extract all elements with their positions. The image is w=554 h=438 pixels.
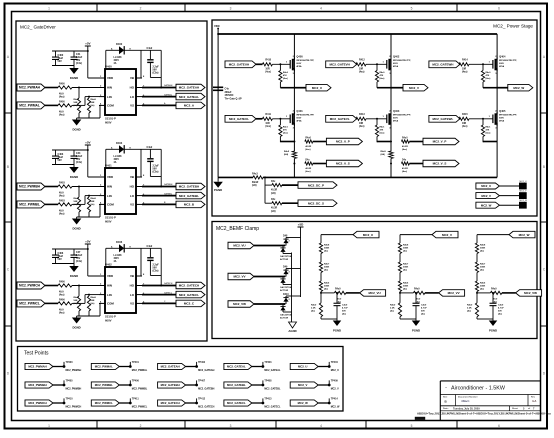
svg-text:TP407: TP407 — [198, 380, 206, 383]
svg-text:Q403: Q403 — [393, 109, 400, 113]
svg-text:MC2_GATEAL: MC2_GATEAL — [179, 95, 199, 99]
svg-text:1: 1 — [48, 6, 50, 10]
svg-text:TP405: TP405 — [66, 380, 74, 383]
svg-text:MC2_GATECL: MC2_GATECL — [264, 406, 281, 409]
svg-text:R4x6: R4x6 — [403, 282, 409, 285]
svg-text:50V: 50V — [421, 311, 425, 313]
svg-text:(C4x): (C4x) — [76, 161, 82, 164]
svg-text:MC2_VU: MC2_VU — [233, 244, 245, 248]
svg-text:400V: 400V — [114, 257, 120, 260]
svg-text:R400: R400 — [59, 101, 65, 104]
svg-text:50V: 50V — [58, 258, 63, 261]
svg-text:(4xx): (4xx) — [380, 131, 385, 134]
svg-text:MC2_V: MC2_V — [442, 233, 452, 237]
svg-text:MC2_GATEBL: MC2_GATEBL — [179, 194, 199, 198]
svg-text:MC2_GATEAH: MC2_GATEAH — [198, 369, 215, 372]
svg-text:R4x0: R4x0 — [486, 71, 492, 74]
svg-text:R4x0: R4x0 — [390, 304, 396, 307]
svg-text:MC2_GATEBH: MC2_GATEBH — [179, 185, 199, 189]
svg-text:R4x8: R4x8 — [91, 197, 97, 200]
svg-text:Date:: Date: — [443, 407, 449, 410]
svg-text:R4x1: R4x1 — [283, 125, 289, 128]
svg-text:4F5A: 4F5A — [393, 119, 399, 122]
svg-text:49.9: 49.9 — [59, 210, 64, 213]
svg-text:49.9: 49.9 — [59, 291, 64, 294]
svg-text:50V: 50V — [498, 311, 502, 313]
svg-text:DGND: DGND — [72, 128, 80, 132]
svg-text:R4x9: R4x9 — [74, 197, 80, 200]
svg-text:40.2R: 40.2R — [305, 145, 311, 148]
svg-text:MC2_GATECL: MC2_GATECL — [227, 401, 246, 405]
svg-text:R4x9: R4x9 — [491, 288, 497, 291]
svg-text:IRFS3006TRL7PP,: IRFS3006TRL7PP, — [393, 115, 411, 117]
svg-text:(4x): (4x) — [324, 250, 328, 253]
svg-text:D410: D410 — [283, 293, 289, 296]
svg-text:300K: 300K — [403, 248, 409, 250]
svg-text:B: B — [7, 165, 9, 169]
svg-text:HO: HO — [130, 185, 135, 189]
svg-text:MC2_PWMAH: MC2_PWMAH — [19, 86, 41, 90]
svg-text:47K: 47K — [486, 128, 490, 131]
svg-text:ABG0U=Tou:JULY.28.UKPM.LNSheet: ABG0U=Tou:JULY.28.UKPM.LNSheet·5·of·7=AB… — [417, 411, 551, 415]
svg-text:(4x): (4x) — [311, 310, 315, 313]
svg-text:OACZ3TUM: OACZ3TUM — [280, 314, 292, 317]
svg-text:MC2_GATEAH: MC2_GATEAH — [161, 365, 180, 369]
svg-text:MC2_C: MC2_C — [184, 302, 195, 306]
svg-text:(4xx): (4xx) — [486, 131, 491, 134]
svg-text:MC2_U: MC2_U — [481, 184, 491, 188]
svg-text:R4x8: R4x8 — [91, 98, 97, 101]
svg-text:(4xx): (4xx) — [462, 125, 468, 128]
svg-text:VB: VB — [130, 76, 134, 80]
svg-text:R412: R412 — [359, 59, 365, 62]
svg-text:C4x2: C4x2 — [147, 245, 153, 248]
svg-text:R4x5: R4x5 — [381, 150, 387, 153]
svg-text:Q402: Q402 — [393, 55, 400, 59]
svg-text:DGND: DGND — [70, 76, 78, 80]
svg-text:10R: 10R — [462, 123, 467, 125]
svg-text:R4x8: R4x8 — [480, 244, 486, 247]
svg-text:56K: 56K — [74, 102, 78, 104]
svg-text:C4x9: C4x9 — [342, 304, 348, 307]
svg-text:PGND: PGND — [489, 329, 497, 333]
svg-text:R406: R406 — [59, 299, 65, 302]
svg-text:(4xx): (4xx) — [59, 96, 65, 99]
svg-text:VS: VS — [130, 302, 134, 306]
svg-text:40.2R: 40.2R — [402, 167, 408, 170]
svg-text:MC2_W: MC2_W — [519, 233, 530, 237]
svg-text:MC2_GATECL: MC2_GATECL — [179, 293, 199, 297]
svg-text:MC2_GATEWL: MC2_GATEWL — [433, 117, 454, 121]
svg-text:MC2_PWMAL: MC2_PWMAL — [95, 365, 113, 369]
svg-text:4F5A: 4F5A — [393, 65, 399, 68]
svg-text:47K: 47K — [486, 74, 490, 77]
svg-text:40.2R: 40.2R — [271, 207, 277, 210]
svg-text:VS: VS — [130, 104, 134, 108]
svg-text:(C4x): (C4x) — [76, 260, 82, 263]
svg-text:MC2_GATEBH: MC2_GATEBH — [198, 388, 215, 391]
svg-text:(4xx): (4xx) — [486, 77, 491, 80]
svg-text:VDD: VDD — [107, 274, 113, 278]
svg-text:U400: U400 — [105, 65, 112, 69]
svg-text:R4x9: R4x9 — [414, 288, 420, 291]
svg-text:DGND: DGND — [70, 274, 78, 278]
svg-text:Q404: Q404 — [499, 55, 506, 59]
svg-text:MC2_PWMBH: MC2_PWMBH — [28, 383, 46, 387]
svg-text:(4xx): (4xx) — [265, 71, 271, 74]
svg-text:TP406: TP406 — [132, 380, 140, 383]
svg-text:DGND: DGND — [72, 326, 80, 330]
svg-text:MC2_BEMF Clamp: MC2_BEMF Clamp — [216, 226, 259, 232]
svg-text:(4x): (4x) — [421, 313, 425, 316]
svg-text:ACT10R: ACT10R — [280, 289, 289, 292]
svg-text:49.9: 49.9 — [59, 309, 64, 312]
svg-text:MC2_PWMAL: MC2_PWMAL — [132, 369, 148, 372]
svg-text:R4x0: R4x0 — [311, 304, 317, 307]
svg-text:(C0x): (C0x) — [153, 270, 159, 273]
svg-text:(C0x): (C0x) — [153, 72, 159, 75]
svg-text:R4x1: R4x1 — [380, 125, 386, 128]
svg-text:IRFS3006TRL7PP,: IRFS3006TRL7PP, — [499, 60, 517, 62]
svg-text:R400: R400 — [59, 83, 65, 86]
svg-text:MC2_PWMCH: MC2_PWMCH — [66, 406, 82, 409]
svg-text:GATECH: GATECH — [164, 282, 173, 285]
svg-text:OACZ3TUM: OACZ3TUM — [280, 255, 292, 258]
svg-text:(4xx): (4xx) — [359, 125, 365, 128]
svg-text:40.2R: 40.2R — [402, 145, 408, 148]
svg-text:R4x0: R4x0 — [283, 71, 289, 74]
svg-text:600V: 600V — [296, 63, 301, 65]
svg-text:5: 5 — [411, 424, 413, 428]
svg-text:D406: D406 — [116, 240, 123, 244]
svg-text:600V: 600V — [393, 117, 398, 119]
svg-text:(H4): (H4) — [284, 153, 289, 156]
svg-text:MC2_V_S: MC2_V_S — [433, 162, 447, 166]
svg-text:600V: 600V — [105, 220, 112, 224]
svg-text:300K: 300K — [403, 267, 409, 269]
svg-text:(4xx): (4xx) — [59, 312, 65, 315]
svg-text:300K: 300K — [324, 267, 330, 269]
svg-text:4A: 4A — [114, 161, 117, 164]
svg-text:4: 4 — [320, 424, 322, 428]
svg-text:Test Points: Test Points — [24, 351, 49, 357]
svg-text:(4x): (4x) — [91, 203, 95, 206]
svg-text:MC2_VV: MC2_VV — [233, 275, 245, 279]
svg-text:6: 6 — [498, 424, 500, 428]
svg-text:+5V: +5V — [85, 240, 90, 244]
svg-text:R4x1: R4x1 — [486, 125, 492, 128]
svg-text:MC2_VU: MC2_VU — [369, 291, 381, 295]
svg-text:MC2_U: MC2_U — [312, 86, 322, 90]
svg-text:HIN: HIN — [107, 284, 112, 288]
svg-text:TP410: TP410 — [66, 398, 74, 401]
svg-text:+5V: +5V — [85, 42, 90, 46]
svg-text:(4x): (4x) — [74, 203, 78, 206]
svg-text:R4x: R4x — [271, 198, 276, 201]
svg-text:MC2_B: MC2_B — [184, 203, 195, 207]
svg-text:DGND: DGND — [70, 175, 78, 179]
svg-text:LL4148: LL4148 — [114, 155, 123, 158]
svg-text:47K: 47K — [380, 74, 384, 77]
svg-text:4F5A: 4F5A — [499, 119, 505, 122]
svg-text:MC2_GATEBH: MC2_GATEBH — [161, 383, 180, 387]
svg-text:MC2_GATEUL: MC2_GATEUL — [229, 117, 249, 121]
svg-text:MC2_U: MC2_U — [363, 233, 373, 237]
svg-text:4.7nF: 4.7nF — [498, 307, 504, 310]
svg-text:GATEBH: GATEBH — [164, 183, 173, 186]
svg-text:MC2_W: MC2_W — [298, 401, 308, 405]
svg-text:600V: 600V — [499, 117, 504, 119]
svg-text:U402: U402 — [105, 263, 112, 267]
svg-text:3: 3 — [230, 424, 232, 428]
svg-text:PGND: PGND — [333, 329, 341, 333]
svg-text:MC2_W: MC2_W — [520, 200, 528, 202]
svg-text:10R: 10R — [265, 123, 270, 125]
svg-text:(H4): (H4) — [271, 210, 276, 213]
svg-text:MC2_PWMBH: MC2_PWMBH — [19, 185, 41, 189]
svg-text:400V: 400V — [114, 59, 120, 62]
svg-text:R406: R406 — [59, 281, 65, 284]
svg-text:Q401: Q401 — [296, 109, 303, 113]
svg-text:MC2_DC_P: MC2_DC_P — [308, 183, 324, 187]
svg-text:(4x): (4x) — [480, 288, 484, 291]
svg-text:300K: 300K — [480, 286, 486, 288]
svg-text:(4xx): (4xx) — [265, 125, 271, 128]
svg-text:IRFS3006TRL7PP,: IRFS3006TRL7PP, — [296, 60, 314, 62]
svg-text:600V: 600V — [499, 63, 504, 65]
svg-text:VDD: VDD — [107, 175, 113, 179]
svg-text:MC2_PWMAL: MC2_PWMAL — [19, 104, 40, 108]
svg-text:MC2_GATEVH: MC2_GATEVH — [330, 63, 350, 67]
svg-text:R413: R413 — [359, 113, 365, 116]
svg-text:MC2_W: MC2_W — [481, 203, 492, 207]
svg-text:D4x: D4x — [402, 159, 407, 162]
svg-text:R4x5: R4x5 — [284, 150, 290, 153]
svg-text:4: 4 — [320, 6, 322, 10]
svg-text:MC2_VW: MC2_VW — [524, 291, 537, 295]
svg-text:(4xx): (4xx) — [402, 170, 407, 173]
svg-text:600V: 600V — [296, 117, 301, 119]
svg-text:R4x7: R4x7 — [403, 263, 409, 266]
svg-text:(4x): (4x) — [403, 288, 407, 291]
svg-text:MC2_VW: MC2_VW — [233, 302, 246, 306]
svg-text:TP412: TP412 — [198, 398, 206, 401]
svg-text:47K: 47K — [380, 128, 384, 131]
svg-text:5: 5 — [411, 6, 413, 10]
svg-text:MC2_GATEAL: MC2_GATEAL — [227, 365, 246, 369]
svg-text:(4xx): (4xx) — [59, 213, 65, 216]
svg-text:R4x7: R4x7 — [324, 263, 330, 266]
svg-text:MC2_V: MC2_V — [409, 86, 419, 90]
svg-text:MC2_U: MC2_U — [520, 181, 528, 183]
svg-text:R4x0: R4x0 — [380, 71, 386, 74]
svg-text:GATEAH: GATEAH — [164, 84, 173, 87]
svg-text:R4x8: R4x8 — [324, 244, 330, 247]
svg-text:(4x): (4x) — [403, 250, 407, 253]
svg-text:R4x9: R4x9 — [74, 296, 80, 299]
svg-text:2.2K: 2.2K — [390, 308, 395, 310]
svg-text:R4x0: R4x0 — [305, 137, 311, 140]
svg-text:MC2_U_S: MC2_U_S — [336, 162, 350, 166]
svg-text:GATEAL: GATEAL — [164, 93, 173, 96]
svg-text:C4x9: C4x9 — [421, 304, 427, 307]
svg-text:COM: COM — [107, 203, 114, 207]
svg-text:DGND: DGND — [72, 227, 80, 231]
svg-text:LIN: LIN — [107, 293, 112, 297]
svg-text:300K: 300K — [403, 286, 409, 288]
svg-text:R4x3: R4x3 — [252, 173, 258, 176]
svg-text:Size: Size — [443, 397, 448, 399]
svg-text:47K: 47K — [283, 74, 287, 77]
svg-text:(C0x): (C0x) — [153, 171, 159, 174]
svg-text:MC2_U_P: MC2_U_P — [336, 140, 350, 144]
svg-text:MC2_PWMCL: MC2_PWMCL — [95, 401, 113, 405]
svg-text:MC2_GATECH: MC2_GATECH — [198, 406, 215, 409]
svg-text:MC2_GATEBL: MC2_GATEBL — [264, 388, 281, 391]
svg-text:MC2_DC_S: MC2_DC_S — [308, 201, 324, 205]
svg-text:MC2_GATEWH: MC2_GATEWH — [432, 63, 453, 67]
svg-text:(4xx): (4xx) — [359, 71, 365, 74]
svg-text:(4x): (4x) — [467, 310, 471, 313]
svg-text:(4x): (4x) — [480, 269, 484, 272]
svg-text:<Doc>: <Doc> — [461, 399, 470, 403]
svg-text:MC2_A: MC2_A — [184, 104, 195, 108]
svg-text:4A: 4A — [114, 260, 117, 263]
svg-text:R411: R411 — [265, 113, 271, 116]
svg-text:600V: 600V — [105, 121, 112, 125]
svg-text:LL4148: LL4148 — [114, 254, 123, 257]
svg-text:VB: VB — [130, 175, 134, 179]
svg-text:2.2K: 2.2K — [467, 308, 472, 310]
svg-text:MC2_GATECH: MC2_GATECH — [179, 284, 199, 288]
svg-text:300K: 300K — [324, 248, 330, 250]
svg-text:LIN: LIN — [107, 95, 112, 99]
svg-text:(4xx): (4xx) — [380, 77, 385, 80]
svg-text:MC2_GATEBL: MC2_GATEBL — [227, 383, 246, 387]
svg-text:R4x8: R4x8 — [403, 244, 409, 247]
svg-text:(C4x): (C4x) — [76, 62, 82, 65]
svg-text:GATECL: GATECL — [164, 291, 173, 294]
svg-text:VDD: VDD — [107, 76, 113, 80]
svg-text:56K: 56K — [74, 300, 78, 302]
svg-text:56K: 56K — [91, 300, 95, 302]
svg-text:(4xx): (4xx) — [59, 195, 65, 198]
svg-text:•: • — [446, 385, 447, 389]
svg-text:MC2_PWMCL: MC2_PWMCL — [19, 302, 40, 306]
svg-text:TP403: TP403 — [264, 361, 272, 364]
svg-text:R410: R410 — [265, 59, 271, 62]
svg-text:MC2_PWMAH: MC2_PWMAH — [66, 369, 82, 372]
svg-text:(4x): (4x) — [342, 313, 346, 316]
svg-text:TP411: TP411 — [132, 398, 140, 401]
svg-text:MC2_V: MC2_V — [481, 194, 491, 198]
svg-text:(4xx): (4xx) — [59, 294, 65, 297]
svg-text:(4x): (4x) — [403, 269, 407, 272]
svg-text:50V: 50V — [58, 60, 63, 63]
svg-text:R4x6: R4x6 — [480, 282, 486, 285]
svg-text:(4x): (4x) — [74, 104, 78, 107]
svg-text:4F5A: 4F5A — [296, 65, 302, 68]
svg-text:(4xx): (4xx) — [283, 77, 288, 80]
svg-text:D4x: D4x — [305, 159, 310, 162]
svg-text:Sheet: Sheet — [512, 407, 518, 410]
svg-text:3: 3 — [230, 6, 232, 10]
svg-text:MC2_GATEVL: MC2_GATEVL — [330, 117, 350, 121]
svg-text:R4x0: R4x0 — [402, 137, 408, 140]
svg-text:(4x): (4x) — [480, 250, 484, 253]
svg-text:60mR: 60mR — [252, 182, 259, 184]
svg-text:TP404: TP404 — [331, 361, 339, 364]
svg-text:+5D: +5D — [298, 223, 304, 227]
svg-text:4.7nF: 4.7nF — [342, 307, 348, 310]
svg-text:TP401: TP401 — [132, 361, 140, 364]
svg-text:PGND: PGND — [412, 329, 420, 333]
svg-text:MC2_PWMBH: MC2_PWMBH — [66, 388, 82, 391]
svg-text:MC2_V: MC2_V — [331, 388, 339, 391]
svg-text:4.7nF: 4.7nF — [421, 307, 427, 310]
svg-text:COM: COM — [107, 104, 114, 108]
svg-text:R4x9: R4x9 — [335, 288, 341, 291]
svg-text:2: 2 — [140, 6, 142, 10]
svg-text:HIN: HIN — [107, 86, 112, 90]
svg-text:6: 6 — [498, 6, 500, 10]
svg-text:4A: 4A — [114, 62, 117, 65]
svg-text:MC2_GATECH: MC2_GATECH — [161, 401, 180, 405]
svg-text:R4x: R4x — [271, 180, 276, 183]
svg-text:MC2_ Power Stage: MC2_ Power Stage — [493, 24, 533, 29]
svg-text:(4xx): (4xx) — [402, 148, 407, 151]
svg-text:D403: D403 — [116, 141, 123, 145]
svg-text:(4xx): (4xx) — [462, 71, 468, 74]
svg-text:MC2_V: MC2_V — [298, 383, 307, 387]
svg-text:Tuesday, July 28, 2009: Tuesday, July 28, 2009 — [453, 408, 480, 411]
svg-text:HO: HO — [130, 86, 135, 90]
svg-text:LL4148: LL4148 — [114, 56, 123, 59]
svg-text:56K: 56K — [91, 102, 95, 104]
svg-text:IRFS3006TRL7PP,: IRFS3006TRL7PP, — [296, 115, 314, 117]
svg-text:R4x8: R4x8 — [91, 296, 97, 299]
svg-text:R403: R403 — [59, 200, 65, 203]
svg-text:R4x7: R4x7 — [480, 263, 486, 266]
svg-text:(4x): (4x) — [390, 310, 394, 313]
svg-text:GATEBL: GATEBL — [164, 192, 173, 195]
svg-text:(H4): (H4) — [271, 192, 276, 195]
svg-text:49.9: 49.9 — [59, 111, 64, 114]
svg-text:TP400: TP400 — [66, 361, 74, 364]
svg-text:56K: 56K — [74, 201, 78, 203]
svg-text:MC2_W: MC2_W — [513, 86, 524, 90]
svg-text:TP413: TP413 — [264, 398, 272, 401]
svg-text:LIN: LIN — [107, 194, 112, 198]
svg-text:(H4): (H4) — [381, 153, 386, 156]
svg-text:(4xx): (4xx) — [305, 170, 310, 173]
svg-text:10R: 10R — [265, 69, 270, 71]
svg-text:Q400: Q400 — [296, 55, 303, 59]
svg-text:300K: 300K — [480, 267, 486, 269]
svg-text:(4x): (4x) — [498, 313, 502, 316]
svg-text:1: 1 — [48, 424, 50, 428]
svg-text:400V: 400V — [114, 158, 120, 161]
svg-text:49.9: 49.9 — [59, 192, 64, 195]
svg-text:IRFS3006TRL7PP,: IRFS3006TRL7PP, — [499, 115, 517, 117]
svg-text:MC2_PWMAH: MC2_PWMAH — [28, 365, 46, 369]
svg-text:(4xx): (4xx) — [283, 131, 288, 134]
svg-text:+5V: +5V — [85, 141, 90, 145]
svg-text:10R: 10R — [462, 69, 467, 71]
svg-text:TP409: TP409 — [331, 380, 339, 383]
svg-text:40.2R: 40.2R — [305, 167, 311, 170]
svg-text:600V: 600V — [393, 63, 398, 65]
